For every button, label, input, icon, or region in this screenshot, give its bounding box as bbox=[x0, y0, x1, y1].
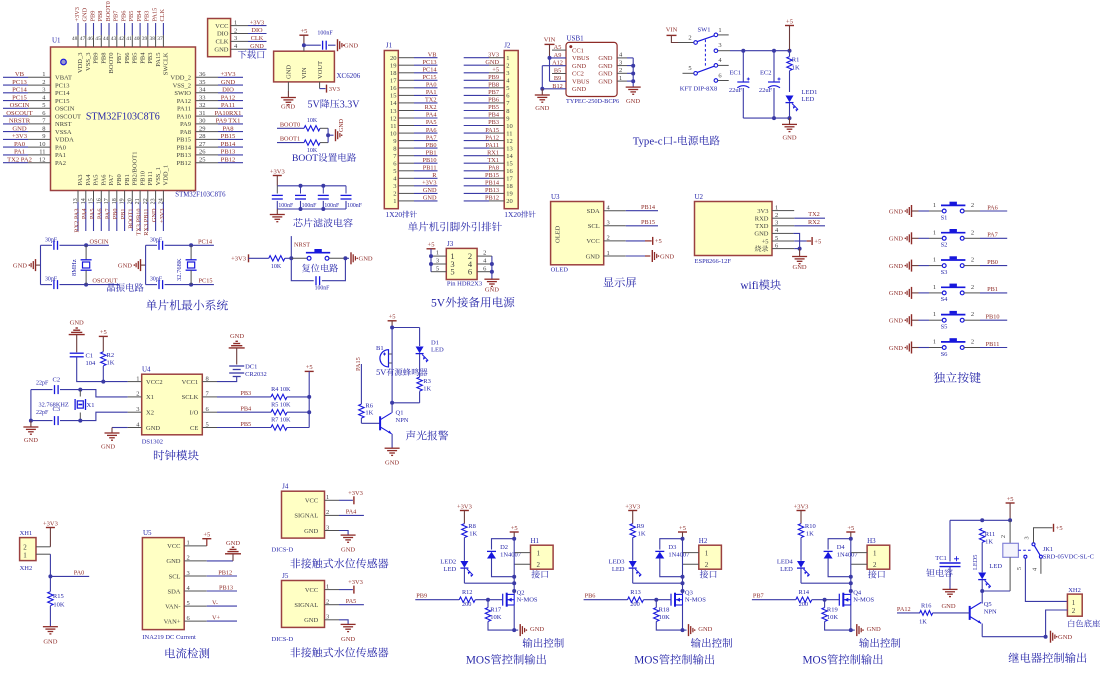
svg-text:LED: LED bbox=[431, 347, 444, 354]
wire drain bus Q4 bbox=[850, 539, 852, 595]
download port pin 3 CLK net CLK bbox=[231, 40, 248, 42]
svg-text:100nF: 100nF bbox=[315, 286, 331, 292]
svg-text:32.768K: 32.768K bbox=[176, 258, 183, 281]
svg-text:R4 10K: R4 10K bbox=[271, 386, 291, 393]
svg-text:PB8: PB8 bbox=[488, 82, 499, 89]
svg-text:5: 5 bbox=[42, 102, 45, 109]
svg-text:2: 2 bbox=[705, 561, 709, 569]
diode D4 1N4007 bbox=[828, 539, 851, 550]
svg-text:RX2 PA3: RX2 PA3 bbox=[73, 209, 80, 233]
svg-text:3V3: 3V3 bbox=[757, 208, 768, 215]
LED LED4 bbox=[797, 561, 805, 568]
svg-text:PB14: PB14 bbox=[641, 204, 656, 211]
download port pin 1 VCC net +3V3 bbox=[231, 25, 248, 27]
wire source to GND Q4 bbox=[850, 605, 852, 630]
label download port title bbox=[238, 50, 265, 59]
svg-text:+5: +5 bbox=[203, 532, 210, 539]
LED LED3 bbox=[629, 561, 637, 568]
U1 bottom pin 16 PA6 wire/net PA6 bbox=[100, 191, 102, 203]
svg-text:PB9: PB9 bbox=[488, 74, 499, 81]
svg-text:N-MOS: N-MOS bbox=[853, 597, 874, 604]
net PB4 wire + resistor R5 10K bbox=[217, 411, 271, 413]
svg-text:D3: D3 bbox=[668, 544, 676, 551]
svg-text:GND: GND bbox=[660, 254, 674, 261]
svg-text:+3V3: +3V3 bbox=[250, 19, 264, 26]
svg-text:PC13: PC13 bbox=[55, 82, 69, 89]
svg-text:PA6: PA6 bbox=[97, 209, 104, 220]
svg-text:42: 42 bbox=[119, 36, 125, 42]
svg-text:PA1: PA1 bbox=[14, 149, 25, 156]
U1 bottom pin 22 PB11 wire/net RX3 PB11 bbox=[147, 191, 149, 203]
svg-text:25: 25 bbox=[199, 157, 206, 164]
resistor 10K BOOT0 bbox=[304, 126, 320, 131]
svg-text:VBUS: VBUS bbox=[572, 55, 590, 62]
svg-text:TX1: TX1 bbox=[487, 157, 499, 164]
svg-text:PB3: PB3 bbox=[488, 119, 499, 126]
capacitor 100nF filter 1 bbox=[276, 186, 278, 194]
U1 left pin 1 VBAT wire/net VB bbox=[3, 76, 28, 78]
U1 top pin 41 PB5 wire/net PB5 bbox=[131, 23, 133, 35]
svg-text:18: 18 bbox=[506, 183, 513, 190]
svg-text:I/O: I/O bbox=[190, 410, 199, 417]
svg-text:40: 40 bbox=[134, 36, 140, 42]
svg-text:16: 16 bbox=[506, 168, 513, 175]
svg-text:R18: R18 bbox=[659, 607, 670, 614]
svg-text:+5: +5 bbox=[300, 28, 307, 35]
svg-text:GND: GND bbox=[535, 105, 549, 112]
wire VIN node bbox=[303, 45, 305, 51]
svg-text:PA9 TX1: PA9 TX1 bbox=[216, 118, 241, 125]
wire XH2 pin2 bbox=[1046, 610, 1068, 637]
ground GND J5 bbox=[339, 620, 348, 625]
svg-text:3.3V: 3.3V bbox=[340, 100, 361, 111]
svg-text:1: 1 bbox=[718, 27, 721, 34]
U1 right pin 25 PB12 wire/net PB12 bbox=[196, 162, 219, 164]
svg-text:PB0: PB0 bbox=[116, 174, 123, 185]
svg-text:6: 6 bbox=[718, 73, 722, 80]
connector H3 body bbox=[867, 545, 890, 569]
net PC14 wire bbox=[191, 244, 214, 246]
svg-text:10K: 10K bbox=[307, 118, 318, 124]
svg-text:PB7: PB7 bbox=[113, 11, 120, 22]
wire USB1 VBUS-B9 bbox=[550, 80, 567, 82]
svg-text:9: 9 bbox=[42, 133, 45, 140]
svg-text:LED: LED bbox=[444, 566, 457, 573]
svg-text:1: 1 bbox=[536, 549, 540, 557]
svg-text:PB5: PB5 bbox=[488, 104, 499, 111]
svg-text:1: 1 bbox=[933, 202, 936, 209]
svg-text:GND: GND bbox=[101, 444, 115, 451]
svg-text:PB4: PB4 bbox=[488, 112, 500, 119]
ground GND of BOOT divider bbox=[335, 129, 337, 141]
svg-text:PB0: PB0 bbox=[987, 259, 998, 266]
svg-text:1: 1 bbox=[933, 284, 936, 291]
svg-text:PA6: PA6 bbox=[426, 127, 437, 134]
svg-text:Q2: Q2 bbox=[517, 589, 525, 596]
svg-text:1: 1 bbox=[23, 551, 27, 559]
svg-text:PA7: PA7 bbox=[104, 209, 111, 220]
svg-text:41: 41 bbox=[126, 36, 132, 42]
svg-text:PB0: PB0 bbox=[426, 142, 437, 149]
diode D2 1N4007 bbox=[492, 539, 515, 550]
label filter caps title bbox=[293, 218, 352, 227]
svg-text:+5: +5 bbox=[814, 238, 821, 245]
svg-text:GND: GND bbox=[214, 47, 228, 54]
svg-text:100nF: 100nF bbox=[324, 203, 340, 209]
svg-text:H2: H2 bbox=[699, 537, 708, 545]
svg-text:CC2: CC2 bbox=[572, 71, 584, 78]
net PB3 wire + resistor R4 10K bbox=[217, 396, 271, 398]
U1 left pin 11 PA1 wire/net PA1 bbox=[3, 154, 28, 156]
U1 bottom pin 13 PA3 wire/net RX2 PA3 bbox=[77, 191, 79, 203]
svg-text:PA0: PA0 bbox=[14, 141, 26, 148]
net PB13 wire bbox=[207, 590, 237, 592]
U1 bottom pin 23 VSS_1 wire/net GND bbox=[155, 191, 157, 203]
relay JK1 coil bbox=[1009, 520, 1011, 543]
svg-text:GND: GND bbox=[24, 437, 38, 444]
svg-text:13: 13 bbox=[390, 108, 397, 115]
svg-text:100nF: 100nF bbox=[278, 203, 294, 209]
svg-text:XH1: XH1 bbox=[20, 530, 33, 537]
svg-text:GND: GND bbox=[226, 540, 240, 547]
U1 top pin 44 BOOT0 wire/net BOOT0 bbox=[108, 23, 110, 35]
resistor 10K reset bbox=[269, 256, 285, 261]
svg-text:STM32F103C8T6: STM32F103C8T6 bbox=[175, 191, 226, 198]
resistor R8 1K bbox=[462, 524, 467, 538]
power +5 alarm bbox=[388, 320, 397, 322]
svg-text:U4: U4 bbox=[142, 366, 151, 374]
svg-text:3: 3 bbox=[436, 258, 439, 265]
svg-text:5: 5 bbox=[436, 265, 439, 272]
net label RX2 bbox=[786, 225, 794, 227]
svg-text:PA7: PA7 bbox=[987, 232, 998, 239]
svg-text:11: 11 bbox=[39, 149, 45, 156]
svg-text:GND: GND bbox=[166, 558, 180, 565]
svg-text:GND: GND bbox=[598, 71, 612, 78]
ground filter caps bbox=[276, 209, 278, 215]
svg-text:1K: 1K bbox=[985, 538, 993, 545]
chip U5 INA219 body bbox=[142, 538, 184, 630]
svg-text:N-MOS: N-MOS bbox=[685, 597, 706, 604]
label output control Q4 bbox=[859, 638, 900, 648]
svg-text:DS1302: DS1302 bbox=[142, 439, 163, 446]
svg-text:GND: GND bbox=[250, 43, 264, 50]
svg-text:BOOT0: BOOT0 bbox=[105, 1, 112, 21]
crystal Y1 8MHz bbox=[85, 245, 87, 259]
svg-text:OSCOUT: OSCOUT bbox=[6, 110, 32, 117]
label white socket bbox=[1068, 620, 1100, 628]
svg-text:VBAT: VBAT bbox=[55, 75, 72, 82]
capacitor 100nF at XC6206 bbox=[322, 41, 324, 50]
svg-text:J2: J2 bbox=[504, 42, 511, 50]
svg-text:PB4: PB4 bbox=[136, 10, 143, 22]
svg-text:PA6: PA6 bbox=[987, 204, 998, 211]
svg-text:PB4: PB4 bbox=[240, 406, 252, 413]
connector download port box bbox=[208, 19, 231, 57]
wire filter caps top bus bbox=[277, 185, 346, 187]
svg-text:DICS-D: DICS-D bbox=[272, 547, 294, 554]
svg-text:+3V3: +3V3 bbox=[74, 7, 81, 21]
svg-text:PC14: PC14 bbox=[423, 67, 438, 74]
svg-text:NRST: NRST bbox=[294, 241, 310, 248]
svg-text:PB12: PB12 bbox=[177, 160, 191, 167]
svg-text:10: 10 bbox=[390, 130, 397, 137]
svg-text:GND: GND bbox=[485, 287, 499, 294]
U1 top pin 48 VDD_3 wire/net +3V3 bbox=[77, 23, 79, 35]
svg-text:16: 16 bbox=[390, 85, 397, 92]
switch SW1 pin stubs bbox=[718, 34, 729, 36]
svg-text:PB7: PB7 bbox=[488, 89, 499, 96]
svg-text:PA7: PA7 bbox=[426, 134, 437, 141]
wire source to GND Q3 bbox=[682, 605, 684, 630]
svg-text:PA2: PA2 bbox=[55, 160, 66, 167]
svg-text:CLK: CLK bbox=[159, 8, 166, 21]
svg-text:J1: J1 bbox=[386, 42, 393, 50]
svg-text:NPN: NPN bbox=[396, 417, 409, 424]
svg-text:PA5: PA5 bbox=[93, 175, 100, 186]
svg-text:OSCOUT: OSCOUT bbox=[92, 278, 117, 285]
svg-text:PC14: PC14 bbox=[55, 90, 70, 97]
svg-text:20: 20 bbox=[506, 198, 513, 205]
svg-text:1: 1 bbox=[933, 229, 936, 236]
wire X1 row bbox=[80, 390, 127, 397]
net label PB0 wire bbox=[964, 265, 980, 267]
svg-text:BOOT: BOOT bbox=[292, 153, 318, 164]
U1 left pin 10 PA0 wire/net PA0 bbox=[3, 146, 28, 148]
label relay title bbox=[1009, 652, 1087, 663]
svg-text:PB15: PB15 bbox=[221, 133, 236, 140]
svg-text:PC15: PC15 bbox=[55, 98, 69, 105]
label jiekou H3 bbox=[868, 570, 885, 578]
power +3V3 J4 bbox=[339, 499, 353, 501]
svg-text:S5: S5 bbox=[941, 324, 948, 331]
svg-text:U2: U2 bbox=[695, 193, 704, 201]
svg-text:R11: R11 bbox=[985, 531, 996, 538]
svg-text:RX3 PB11: RX3 PB11 bbox=[143, 209, 150, 236]
svg-text:GND: GND bbox=[341, 636, 355, 643]
ground GND Q2 bbox=[519, 624, 521, 636]
svg-text:PC13: PC13 bbox=[423, 59, 437, 66]
svg-text:11: 11 bbox=[506, 130, 512, 137]
svg-text:8: 8 bbox=[393, 145, 396, 152]
svg-text:R6: R6 bbox=[365, 402, 373, 409]
svg-text:VSSA: VSSA bbox=[55, 129, 72, 136]
svg-text:R17: R17 bbox=[490, 607, 502, 614]
svg-text:PB8: PB8 bbox=[101, 53, 108, 64]
svg-text:VBUS: VBUS bbox=[572, 78, 590, 85]
label reset title bbox=[302, 264, 338, 272]
U1 right pin 30 PA9 wire/net PA9 TX1 bbox=[196, 123, 219, 125]
svg-text:100nF: 100nF bbox=[302, 203, 318, 209]
svg-text:3: 3 bbox=[718, 42, 721, 49]
LED LED2 bbox=[460, 561, 468, 568]
net PC15 wire bbox=[191, 284, 214, 286]
svg-text:12: 12 bbox=[39, 157, 46, 164]
svg-text:R3: R3 bbox=[423, 378, 431, 385]
net label PB15 bbox=[626, 225, 658, 227]
svg-text:R12: R12 bbox=[462, 589, 473, 596]
svg-text:2: 2 bbox=[873, 561, 877, 569]
svg-text:LED2: LED2 bbox=[440, 559, 456, 566]
svg-text:X1: X1 bbox=[87, 402, 95, 409]
capacitor 100nF filter 3 bbox=[322, 186, 324, 194]
U1 bottom pin 18 PB0 wire/net PB0 bbox=[116, 191, 118, 203]
svg-text:PA5: PA5 bbox=[346, 598, 357, 605]
svg-text:10: 10 bbox=[39, 141, 46, 148]
resistor R6 1K bbox=[359, 404, 364, 418]
svg-text:1: 1 bbox=[933, 311, 936, 318]
wire reset right bbox=[343, 256, 347, 260]
svg-text:PA5: PA5 bbox=[426, 119, 437, 126]
svg-text:J3: J3 bbox=[447, 240, 454, 248]
LED LED5 bbox=[978, 573, 986, 580]
svg-text:+3V3: +3V3 bbox=[457, 503, 472, 510]
svg-text:GND: GND bbox=[485, 59, 499, 66]
svg-text:PA11: PA11 bbox=[485, 142, 499, 149]
svg-text:NPN: NPN bbox=[984, 609, 997, 616]
svg-text:PA4: PA4 bbox=[346, 509, 357, 516]
button S3 bbox=[919, 265, 930, 267]
U1 top pin 39 PB3 wire/net PB3 bbox=[147, 23, 149, 35]
svg-text:+3V3: +3V3 bbox=[422, 180, 436, 187]
svg-text:30: 30 bbox=[199, 118, 206, 125]
label current sense title bbox=[165, 648, 209, 659]
power +5 relay bbox=[1006, 502, 1015, 504]
wire filter caps bottom bus bbox=[277, 208, 346, 210]
svg-text:VDD_1: VDD_1 bbox=[163, 165, 170, 186]
power +5 OLED bbox=[626, 240, 645, 242]
U1 right pin 28 PB15 wire/net PB15 bbox=[196, 138, 219, 140]
svg-text:4: 4 bbox=[1032, 567, 1039, 571]
label output control Q3 bbox=[691, 638, 732, 648]
svg-text:3: 3 bbox=[506, 70, 509, 77]
svg-text:3: 3 bbox=[393, 183, 396, 190]
svg-text:GND: GND bbox=[572, 86, 586, 93]
svg-text:GND: GND bbox=[423, 195, 437, 202]
power +5 U5 bbox=[206, 539, 208, 546]
svg-text:GND: GND bbox=[572, 63, 586, 70]
connector J5 DICS-D body bbox=[282, 581, 325, 628]
U1 right pin 35 VSS_2 wire/net GND bbox=[196, 84, 219, 86]
svg-text:VSS_2: VSS_2 bbox=[173, 82, 191, 89]
svg-text:PA15: PA15 bbox=[485, 127, 499, 134]
svg-text:V-: V- bbox=[212, 599, 218, 606]
svg-text:+3V3: +3V3 bbox=[794, 503, 809, 510]
svg-text:22pF: 22pF bbox=[36, 410, 49, 416]
resistor R19 10K bbox=[824, 600, 826, 608]
U1 left pin 12 PA2 wire/net TX2 PA2 bbox=[3, 162, 28, 164]
button S4 bbox=[919, 292, 930, 294]
svg-text:GND: GND bbox=[598, 63, 612, 70]
svg-text:DIO: DIO bbox=[251, 27, 263, 34]
U1 bottom pin 24 VDD_1 wire/net +3V3 bbox=[162, 191, 164, 203]
capacitor 30pF bottom 8MHz bbox=[41, 284, 53, 286]
wire XH1 pins bbox=[36, 546, 50, 548]
svg-text:19: 19 bbox=[506, 191, 513, 198]
svg-text:46: 46 bbox=[87, 36, 93, 42]
svg-text:8MHz: 8MHz bbox=[71, 259, 78, 276]
svg-text:XC6206: XC6206 bbox=[337, 72, 361, 80]
svg-text:GND: GND bbox=[304, 528, 318, 535]
svg-text:GND: GND bbox=[281, 104, 295, 111]
svg-text:15: 15 bbox=[506, 161, 513, 168]
svg-text:27: 27 bbox=[199, 141, 206, 148]
wire 32k left bus bbox=[145, 245, 147, 284]
button S6 bbox=[919, 347, 930, 349]
power +3V3 filter caps bbox=[273, 175, 282, 177]
crystal Y2 32.768K bbox=[190, 245, 192, 259]
svg-text:LED: LED bbox=[802, 96, 815, 103]
svg-text:S2: S2 bbox=[941, 242, 948, 249]
svg-text:2: 2 bbox=[42, 79, 45, 86]
svg-text:PB5: PB5 bbox=[128, 11, 135, 22]
svg-text:R14: R14 bbox=[799, 589, 810, 596]
svg-text:PB2/BOOT1: PB2/BOOT1 bbox=[132, 152, 139, 186]
resistor R15 10K bbox=[49, 576, 51, 591]
button S2 bbox=[919, 237, 930, 239]
download port pin 2 DIO net DIO bbox=[231, 33, 248, 35]
U1 top pin 42 PB6 wire/net PB6 bbox=[124, 23, 126, 35]
svg-text:SWIO: SWIO bbox=[174, 90, 191, 97]
svg-text:22uF: 22uF bbox=[759, 87, 773, 94]
svg-text:GND: GND bbox=[941, 603, 955, 610]
svg-text:+5: +5 bbox=[679, 525, 686, 532]
svg-text:PA10: PA10 bbox=[177, 113, 191, 120]
svg-text:+3V3: +3V3 bbox=[220, 71, 236, 78]
power +5 D2 branch bbox=[510, 531, 519, 533]
svg-text:2: 2 bbox=[971, 284, 974, 291]
svg-text:PB4: PB4 bbox=[139, 52, 146, 64]
svg-text:PA4: PA4 bbox=[85, 174, 92, 186]
wire USB1 VBUS-A9 to VIN bbox=[550, 57, 567, 59]
svg-text:22pF: 22pF bbox=[36, 381, 49, 387]
power +5 U2 bbox=[786, 240, 794, 242]
relay JK1 switch bbox=[1018, 549, 1031, 551]
svg-text:1K: 1K bbox=[919, 618, 927, 625]
svg-text:3: 3 bbox=[1023, 536, 1030, 539]
power +3V3 LED4 branch bbox=[797, 510, 806, 512]
svg-text:2: 2 bbox=[688, 35, 691, 42]
svg-text:2: 2 bbox=[971, 257, 974, 264]
wire USB1 CC2 stub bbox=[552, 73, 566, 75]
svg-text:PB13: PB13 bbox=[219, 584, 233, 591]
svg-text:INA219 DC Current: INA219 DC Current bbox=[142, 634, 196, 641]
svg-text:35: 35 bbox=[199, 79, 206, 86]
U1 top pin 45 PB8 wire/net PB8 bbox=[100, 23, 102, 35]
svg-text:PB13: PB13 bbox=[485, 187, 499, 194]
svg-text:MOS: MOS bbox=[803, 655, 828, 667]
op-amp U1 microcontroller STM32F103C8T6 body bbox=[51, 47, 196, 191]
connector H1 body bbox=[531, 545, 554, 569]
svg-text:PB3: PB3 bbox=[144, 11, 151, 22]
svg-text:R15: R15 bbox=[53, 593, 64, 600]
svg-text:PA15: PA15 bbox=[151, 8, 158, 22]
svg-text:VIN: VIN bbox=[301, 67, 308, 79]
svg-text:CE: CE bbox=[190, 425, 198, 432]
svg-text:PC15: PC15 bbox=[199, 278, 213, 285]
svg-text:VDD_2: VDD_2 bbox=[170, 75, 191, 82]
svg-text:OSCIN: OSCIN bbox=[55, 106, 75, 113]
U1 bottom pin 15 PA5 wire/net PA5 bbox=[93, 191, 95, 203]
U1 top pin 40 PB4 wire/net PB4 bbox=[139, 23, 141, 35]
svg-text:VCC2: VCC2 bbox=[146, 379, 163, 386]
svg-text:1X20: 1X20 bbox=[504, 210, 521, 219]
svg-text:SIGNAL: SIGNAL bbox=[294, 513, 318, 520]
svg-text:-: - bbox=[673, 136, 677, 148]
svg-text:13: 13 bbox=[73, 198, 79, 204]
svg-text:PB12: PB12 bbox=[218, 569, 232, 576]
net PB5 wire + resistor R7 10K bbox=[217, 427, 271, 429]
